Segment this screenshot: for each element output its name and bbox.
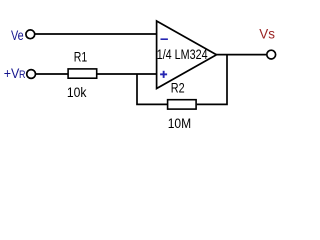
svg-text:Vs: Vs	[259, 26, 275, 41]
svg-text:1/4 LM324: 1/4 LM324	[157, 47, 208, 63]
svg-text:Ve: Ve	[11, 28, 24, 44]
svg-text:R1: R1	[74, 49, 88, 65]
svg-text:+V: +V	[4, 65, 20, 81]
svg-text:10k: 10k	[67, 84, 87, 100]
svg-text:R2: R2	[171, 80, 185, 96]
svg-text:R: R	[19, 69, 26, 81]
svg-text:10M: 10M	[168, 115, 191, 131]
